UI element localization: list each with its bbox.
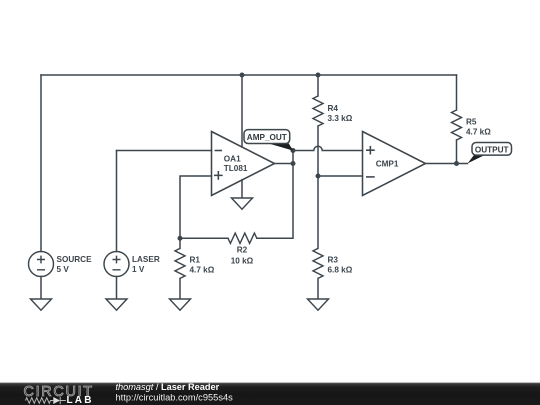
svg-text:R4: R4: [328, 104, 339, 113]
svg-text:R1: R1: [190, 256, 201, 265]
wire AMP_OUT to CMP1 plus input with hop: [293, 146, 363, 150]
ground below LASER: [106, 299, 127, 310]
op-amp OA1: [212, 132, 275, 196]
wire CMP1 output: [426, 163, 468, 165]
wire output node up to AMP_OUT anchor: [292, 151, 294, 164]
wire R4 to divider node: [317, 126, 319, 176]
comparator CMP1: [363, 132, 426, 196]
voltage source SOURCE: [29, 252, 54, 277]
logo resistor-diode glyph: [26, 397, 66, 404]
flag label AMP_OUT: [244, 130, 293, 151]
ground below R1: [170, 299, 191, 310]
junction node at R4 tap on rail: [316, 73, 321, 78]
wire LASER up to minus input row: [116, 151, 118, 252]
resistor R1: [175, 248, 185, 278]
ground below R3: [308, 299, 329, 310]
voltage source LASER: [104, 252, 129, 277]
wire top rail: [41, 74, 457, 76]
wire divider node down to R3: [317, 176, 319, 248]
wire minus input of OA1: [117, 150, 212, 152]
svg-text:LAB: LAB: [67, 395, 94, 405]
junction node R5/output: [454, 161, 459, 166]
svg-text:http://circuitlab.com/c955s4s: http://circuitlab.com/c955s4s: [116, 392, 234, 402]
wire OA1 output: [275, 163, 294, 165]
svg-text:thomasgt / Laser Reader: thomasgt / Laser Reader: [116, 382, 220, 392]
svg-text:AMP_OUT: AMP_OUT: [247, 133, 287, 142]
node AMP_OUT anchor: [291, 148, 296, 153]
svg-text:CMP1: CMP1: [376, 159, 399, 168]
wire R5 to output node: [456, 140, 458, 164]
svg-text:10 kΩ: 10 kΩ: [231, 257, 254, 266]
label R5 4.7 kOhm: [466, 118, 491, 137]
svg-text:5 V: 5 V: [57, 265, 70, 274]
wire node to R2 left lead: [180, 237, 228, 239]
wire R3 to ground: [317, 278, 319, 299]
junction node OA1 output: [291, 161, 296, 166]
wire rail down to R5: [456, 75, 458, 110]
svg-text:4.7 kΩ: 4.7 kΩ: [190, 266, 215, 275]
wire R2 right lead up to output node: [257, 164, 293, 239]
junction node R1/R2/plus-input: [178, 236, 183, 241]
wire SOURCE to ground: [40, 277, 42, 300]
svg-text:TL081: TL081: [224, 164, 248, 173]
wire node to R1: [179, 238, 181, 248]
label LASER 1 V: [132, 255, 160, 274]
svg-text:OUTPUT: OUTPUT: [475, 145, 509, 154]
flag label OUTPUT: [468, 143, 512, 164]
footer bar: [0, 383, 540, 405]
wire rail to R4: [317, 75, 319, 96]
wire left vertical from rail to SOURCE: [40, 75, 42, 252]
wire plus input of OA1: [180, 176, 212, 238]
ground below SOURCE: [31, 299, 52, 310]
wire divider node to CMP1 minus input: [318, 175, 363, 177]
svg-text:3.3 kΩ: 3.3 kΩ: [328, 114, 353, 123]
junction node at OA1 V+ tap on rail: [240, 73, 245, 78]
label SOURCE 5 V: [57, 255, 93, 274]
resistor R2: [228, 233, 257, 243]
label R3 6.8 kOhm: [328, 256, 353, 275]
wire LASER to ground: [116, 277, 118, 300]
resistor R5: [452, 110, 462, 140]
svg-text:OA1: OA1: [224, 155, 241, 164]
wire OA1 V- to ground: [241, 180, 243, 198]
svg-text:R2: R2: [237, 246, 248, 255]
svg-text:1 V: 1 V: [132, 265, 145, 274]
svg-text:LASER: LASER: [132, 255, 160, 264]
label R2 10 kOhm: [231, 246, 254, 266]
wire OA1 V+ supply from rail: [241, 75, 243, 147]
svg-text:6.8 kΩ: 6.8 kΩ: [328, 266, 353, 275]
wire R1 to ground: [179, 278, 181, 299]
svg-text:SOURCE: SOURCE: [57, 255, 93, 264]
label R4 3.3 kOhm: [328, 104, 353, 123]
ground below OA1: [232, 198, 253, 209]
svg-text:R3: R3: [328, 256, 339, 265]
resistor R4: [313, 96, 323, 126]
junction node R4/R3 divider: [316, 174, 321, 179]
resistor R3: [313, 248, 323, 278]
svg-text:R5: R5: [466, 118, 477, 127]
label R1 4.7 kOhm: [190, 256, 215, 275]
svg-text:4.7 kΩ: 4.7 kΩ: [466, 128, 491, 137]
